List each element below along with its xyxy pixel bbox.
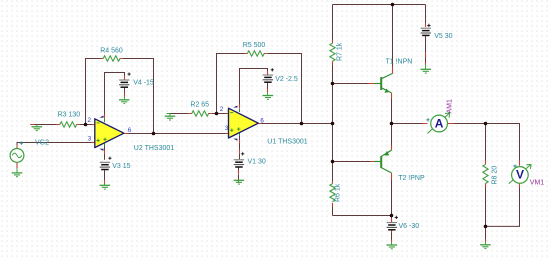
wire left rail middle section (332, 84, 334, 162)
wire T2 base (333, 161, 371, 163)
ground (below V4) (119, 97, 130, 104)
wire U1 V- supply to V1 (239, 134, 241, 160)
resistor R7 (330, 43, 335, 61)
node U1 output feedback junction (300, 122, 304, 126)
svg-text:VM1: VM1 (530, 180, 545, 187)
node T1 base junction (331, 82, 335, 86)
svg-text:R5 500: R5 500 (243, 42, 266, 49)
svg-text:T2 !PNP: T2 !PNP (398, 175, 425, 182)
svg-text:R6 1k: R6 1k (335, 183, 342, 202)
node U2 output junction (152, 132, 156, 136)
battery V5 30 (421, 24, 431, 36)
ground (left of R2) (165, 114, 176, 121)
svg-text:3: 3 (88, 135, 92, 142)
battery V1 30 (234, 152, 245, 167)
wire V1 to ground (238, 167, 240, 179)
wire T1 collector vertical (392, 5, 394, 67)
battery V4 -15 (119, 73, 131, 88)
wire bottom rail to V6 (333, 216, 392, 219)
ground (below V1) (234, 180, 245, 184)
wire U1 V+ supply to V2 (240, 69, 268, 105)
svg-text:V2 -2.5: V2 -2.5 (275, 76, 298, 83)
wire AM1 to top right corner (453, 124, 519, 161)
svg-text:2: 2 (220, 106, 224, 113)
battery V3 15 (100, 157, 112, 170)
wire R4 feedback loop (86, 59, 154, 134)
wire V4 to ground (124, 88, 126, 100)
svg-text:U1 THS3001: U1 THS3001 (267, 138, 307, 145)
ground (below V6) (387, 242, 398, 249)
wire V3 to ground (104, 170, 106, 180)
resistor R8 (483, 164, 488, 183)
wire U1 output row (262, 123, 333, 125)
node U1 inverting input junction (215, 112, 219, 116)
resistor R3 (60, 122, 77, 127)
wire ground to R3 row (34, 124, 92, 126)
node R8 bottom junction (484, 225, 488, 229)
svg-text:U2 THS3001: U2 THS3001 (134, 145, 174, 152)
transistor Q T2 (374, 150, 392, 173)
resistor R6 (330, 184, 335, 202)
wire left rail R6 section (332, 162, 334, 216)
node top rail junction (391, 3, 395, 7)
svg-text:AM1: AM1 (447, 99, 454, 114)
svg-text:V4 -15: V4 -15 (133, 80, 154, 87)
wire T2 emitter vertical (391, 124, 393, 146)
wire T1 emitter vertical (391, 98, 393, 123)
op-amp U1 power pin tips (239, 108, 241, 136)
battery V2 -2.5 (263, 68, 274, 82)
svg-text:V6 -30: V6 -30 (399, 223, 420, 230)
op-amp U1 (229, 106, 259, 141)
svg-text:V: V (516, 167, 524, 181)
ground (below V5) (421, 65, 432, 74)
svg-text:3: 3 (225, 125, 229, 132)
transistor Q T1 (374, 74, 392, 93)
svg-text:6: 6 (128, 127, 132, 134)
node output (emitters) junction (390, 122, 394, 126)
svg-text:VG2: VG2 (35, 140, 49, 147)
wire V6 to ground (391, 230, 393, 240)
ground (left of R3) (32, 125, 43, 131)
wire VM1 lower branch (486, 187, 520, 226)
resistor R4 (103, 56, 120, 61)
ground (below V2) (263, 92, 274, 99)
svg-text:R7 1k: R7 1k (337, 42, 344, 61)
svg-text:T1 !NPN: T1 !NPN (386, 58, 413, 65)
wire T2 collector vertical (391, 179, 393, 215)
voltage source VG2 (10, 142, 24, 163)
resistor R2 (192, 111, 209, 116)
svg-text:V5 30: V5 30 (434, 33, 452, 40)
wire U2 output row to U1 pin3 (127, 133, 225, 135)
wire V5 supply drop (425, 5, 427, 24)
wire R8 branch (485, 124, 487, 227)
wire U2 V- supply to V3 (104, 144, 106, 160)
wire VG2 to U2 pin3 (17, 143, 92, 149)
op-amp U2 (95, 116, 124, 151)
wire left rail R7 section (332, 5, 334, 84)
ammeter AM1 (426, 113, 449, 134)
wire R5 feedback loop (217, 54, 302, 124)
svg-text:2: 2 (88, 117, 92, 124)
svg-text:R4 560: R4 560 (100, 48, 123, 55)
op-amp U2 power pin tips (104, 118, 106, 146)
node T2 base junction (331, 160, 335, 164)
node U2 inverting input junction (84, 123, 88, 127)
voltmeter VM1 (509, 165, 531, 184)
svg-text:R3 130: R3 130 (58, 111, 81, 118)
wire V5 to ground (425, 36, 427, 66)
wire terminal stubs (red) (17, 23, 520, 242)
ground (bottom right) (480, 242, 491, 249)
svg-text:A: A (435, 117, 444, 131)
svg-text:R2 65: R2 65 (190, 102, 209, 109)
battery V6 -30 (387, 216, 398, 230)
wire bottom right ground drop (485, 226, 487, 239)
wire U2 V+ supply to V4 (105, 73, 125, 115)
wire T1 base (333, 83, 369, 85)
ground (below V3) (100, 184, 111, 189)
svg-text:V3 15: V3 15 (112, 163, 130, 170)
wire V2 to ground (267, 83, 269, 95)
resistor R5 (247, 51, 264, 56)
node bottom rail / V6 junction (390, 214, 394, 218)
ground (below VG2) (12, 168, 23, 177)
node base rail / U1 output junction (331, 122, 335, 126)
svg-text:R8 20: R8 20 (492, 166, 499, 185)
wire ground to R2 row (170, 113, 226, 115)
svg-text:6: 6 (260, 117, 264, 124)
svg-text:V1 30: V1 30 (248, 158, 266, 165)
wire output node to AM1 (392, 123, 423, 125)
wire top supply rail (333, 4, 426, 6)
node R8 top junction (484, 122, 488, 126)
